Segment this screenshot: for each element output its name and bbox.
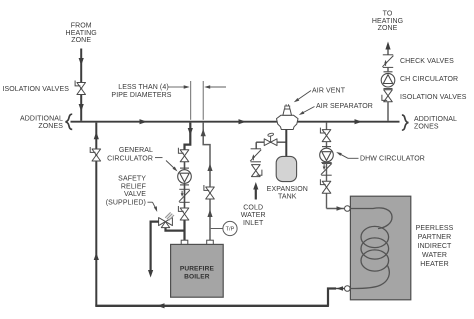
svg-text:ADDITIONAL: ADDITIONAL — [20, 115, 63, 122]
leader to air separator — [302, 107, 315, 114]
dimension extension line (right) — [202, 81, 204, 120]
general circulator pump — [180, 167, 189, 169]
leader to safety relief valve — [148, 201, 153, 203]
svg-text:PIPE DIAMETERS: PIPE DIAMETERS — [111, 92, 171, 99]
svg-text:LESS THAN (4): LESS THAN (4) — [118, 84, 169, 91]
DHW flow-check valve — [321, 162, 331, 164]
second isolation valve on boiler supply — [180, 208, 189, 220]
discharge arrow down — [148, 270, 153, 278]
svg-text:HEATING: HEATING — [66, 30, 97, 37]
water heater inlet union — [345, 206, 351, 212]
dimension extension line (left) — [190, 81, 192, 120]
svg-text:TO: TO — [383, 10, 393, 17]
air vent stack — [283, 109, 292, 115]
isolation valve on boiler return — [206, 187, 215, 199]
pipe below circulator — [184, 183, 186, 208]
DHW isolation valve (bottom) — [322, 181, 331, 193]
flow arrow up on return riser (top) — [94, 132, 99, 140]
T/P gauge connector line — [211, 228, 223, 230]
brace - additional zones (right) — [402, 115, 409, 130]
safety relief valve inlet pipe — [166, 227, 184, 231]
svg-text:ISOLATION VALVES: ISOLATION VALVES — [400, 94, 467, 101]
svg-text:AIR SEPARATOR: AIR SEPARATOR — [316, 103, 373, 110]
boiler supply flange — [181, 240, 188, 244]
air separator body — [277, 115, 299, 129]
isolation valve on supply drop — [77, 83, 86, 95]
svg-text:INDIRECT: INDIRECT — [418, 243, 452, 250]
flow arrow up into header on boiler return — [201, 129, 206, 137]
svg-text:ZONE: ZONE — [378, 25, 398, 32]
flow arrow up on boiler return (middle) — [207, 164, 212, 172]
main supply header pipe — [71, 121, 400, 123]
svg-text:ADDITIONAL: ADDITIONAL — [414, 116, 457, 123]
flow arrow left on bottom return — [157, 303, 165, 308]
cold water inlet arrow — [255, 190, 257, 200]
check valve on riser — [383, 54, 393, 56]
CH circulator pump — [384, 71, 393, 73]
flow arrow down on supply drop — [79, 58, 84, 66]
brace - additional zones (left) — [66, 114, 73, 129]
svg-text:GENERAL: GENERAL — [119, 147, 153, 154]
svg-text:PARTNER: PARTNER — [418, 234, 452, 241]
flow arrow on main header (middle) — [239, 119, 247, 124]
svg-text:HEATER: HEATER — [420, 261, 448, 268]
svg-text:WATER: WATER — [422, 252, 447, 259]
system return riser — [95, 123, 97, 306]
svg-text:ZONES: ZONES — [38, 123, 63, 130]
svg-text:RELIEF: RELIEF — [121, 183, 146, 190]
flow arrow down into header — [79, 104, 84, 112]
flow arrow right into water heater — [337, 206, 344, 211]
svg-text:CHECK VALVES: CHECK VALVES — [400, 58, 454, 65]
DHW isolation valve (top) — [322, 130, 331, 142]
svg-text:BOILER: BOILER — [184, 274, 210, 281]
svg-text:PUREFIRE: PUREFIRE — [180, 265, 215, 272]
water heater outlet union — [345, 286, 351, 292]
dimension arrow pointing left — [209, 86, 227, 88]
fill line to expansion tank drop — [256, 141, 285, 143]
isolation valve on boiler supply — [180, 150, 189, 162]
svg-text:T/P: T/P — [226, 227, 235, 233]
riser pipe to heating zone — [387, 50, 389, 56]
safety relief valve — [159, 218, 166, 226]
DHW circulator pump — [322, 146, 331, 148]
pipe to DHW circulator — [326, 142, 328, 148]
dimension arrow pointing right — [168, 86, 184, 88]
cold water isolation valve — [252, 165, 261, 177]
flow arrow on main header (right) — [355, 119, 363, 124]
svg-text:AIR VENT: AIR VENT — [312, 87, 346, 94]
boiler supply pipe lower segment — [183, 220, 185, 240]
expansion tank drop pipe — [285, 129, 287, 157]
flow arrow on main header (left) — [140, 119, 148, 124]
boiler supply pipe upper segment — [185, 123, 191, 150]
pipe between valve and circulator — [184, 162, 186, 170]
DHW supply into water heater — [327, 208, 345, 210]
safety relief valve spring — [165, 212, 174, 220]
boiler PUREFIRE — [171, 244, 224, 297]
svg-text:(SUPPLIED): (SUPPLIED) — [106, 199, 146, 206]
isolation valve on return riser — [92, 149, 101, 161]
cold water check valve — [251, 148, 261, 150]
svg-text:VALVE: VALVE — [124, 191, 146, 198]
bottom return pipe — [95, 305, 329, 307]
svg-text:INLET: INLET — [243, 220, 264, 227]
svg-text:EXPANSION: EXPANSION — [267, 186, 308, 193]
heat exchanger coil — [350, 208, 392, 229]
svg-text:CIRCULATOR: CIRCULATOR — [107, 155, 153, 162]
svg-text:ZONE: ZONE — [71, 37, 91, 44]
relief discharge pipe — [151, 222, 159, 271]
flow arrow down on boiler supply — [188, 128, 193, 136]
leader to DHW circulator — [348, 157, 359, 159]
pipe segment check valve to circulator — [387, 67, 389, 72]
indirect water heater — [350, 196, 410, 300]
flow arrow up on boiler return (lower) — [207, 210, 212, 218]
isolation valve on riser — [384, 90, 393, 102]
svg-text:COLD: COLD — [243, 204, 263, 211]
fill valve (globe with handwheel) — [264, 139, 270, 146]
svg-text:WATER: WATER — [241, 212, 266, 219]
svg-text:ISOLATION VALVES: ISOLATION VALVES — [2, 86, 69, 93]
cold water elbow to fill valve — [255, 142, 257, 148]
leader to general circulator — [155, 157, 163, 159]
flow-check valve on boiler supply — [179, 188, 189, 190]
pipe below DHW circulator — [326, 162, 328, 209]
svg-text:HEATING: HEATING — [372, 18, 403, 25]
boiler return pipe — [203, 123, 210, 241]
svg-text:PEERLESS: PEERLESS — [416, 225, 454, 232]
svg-text:FROM: FROM — [71, 22, 92, 29]
boiler return flange — [207, 240, 214, 244]
svg-text:DHW CIRCULATOR: DHW CIRCULATOR — [360, 156, 425, 163]
flow arrow up to heating zone — [385, 42, 390, 50]
flow arrow left out of water heater — [337, 286, 344, 291]
DHW branch pipe upper — [326, 123, 328, 130]
water heater return pipe — [328, 289, 336, 306]
riser pipe to header — [387, 102, 389, 121]
T/P gauge — [223, 221, 237, 235]
svg-text:CH CIRCULATOR: CH CIRCULATOR — [400, 76, 458, 83]
leader to air vent — [297, 91, 312, 101]
svg-text:SAFETY: SAFETY — [118, 175, 146, 182]
svg-text:TANK: TANK — [278, 194, 297, 201]
supply drop pipe from heating zone — [80, 49, 82, 121]
expansion tank — [276, 156, 296, 181]
svg-text:ZONES: ZONES — [414, 124, 439, 131]
flow arrow up on return riser (bottom) — [94, 253, 99, 261]
